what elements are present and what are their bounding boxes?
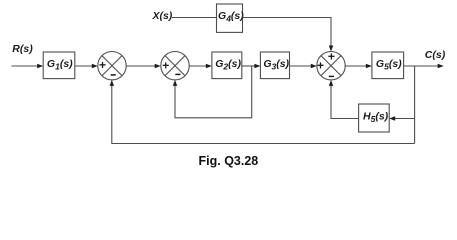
svg-text:+: +: [328, 50, 335, 64]
svg-text:G4(s): G4(s): [218, 10, 244, 24]
block G5: [372, 52, 404, 79]
wire branch into H5 input: [389, 116, 414, 120]
block H5: [359, 104, 390, 132]
block G4: [217, 4, 245, 32]
wire inner feedback takeoff between G2 and G3 down, left, up into S2 bottom: [173, 66, 252, 118]
svg-text:R(s): R(s): [12, 43, 33, 55]
svg-text:X(s): X(s): [151, 10, 172, 22]
svg-text:C(s): C(s): [425, 49, 446, 61]
svg-text:G2(s): G2(s): [215, 58, 241, 72]
wire H5 output left then up into S3 bottom: [329, 80, 359, 119]
wire R(s) input to G1: [12, 64, 44, 68]
block G2: [212, 52, 242, 79]
wire S2 to G2: [189, 64, 212, 68]
svg-text:Fig. Q3.28: Fig. Q3.28: [199, 154, 259, 168]
wire S1 to summing junction S2: [126, 64, 161, 68]
summing junction S1: [98, 51, 126, 79]
wire S3 to G5: [345, 64, 372, 68]
block G1: [43, 52, 75, 79]
wire G5 to C(s) output: [404, 64, 444, 68]
wire output takeoff down from output line: [414, 66, 416, 144]
summing junction S3: [317, 50, 345, 80]
wire X(s) to G4: [172, 17, 217, 19]
svg-text:+: +: [317, 58, 324, 72]
wire G2 to G3: [242, 64, 261, 68]
svg-text:G3(s): G3(s): [263, 58, 289, 72]
svg-text:H5(s): H5(s): [363, 111, 389, 125]
wire outer feedback from takeoff left then up into S1 bottom: [110, 80, 415, 144]
block G3: [260, 52, 289, 79]
summing junction S2: [161, 51, 189, 79]
wire G1 to summing junction S1: [75, 64, 98, 68]
wire G3 to summing junction S3: [290, 64, 317, 68]
svg-text:+: +: [99, 58, 106, 72]
svg-text:G1(s): G1(s): [47, 58, 73, 72]
svg-text:G5(s): G5(s): [376, 58, 402, 72]
svg-text:+: +: [162, 59, 169, 73]
wire G4 right then down into S3 top: [243, 18, 334, 52]
